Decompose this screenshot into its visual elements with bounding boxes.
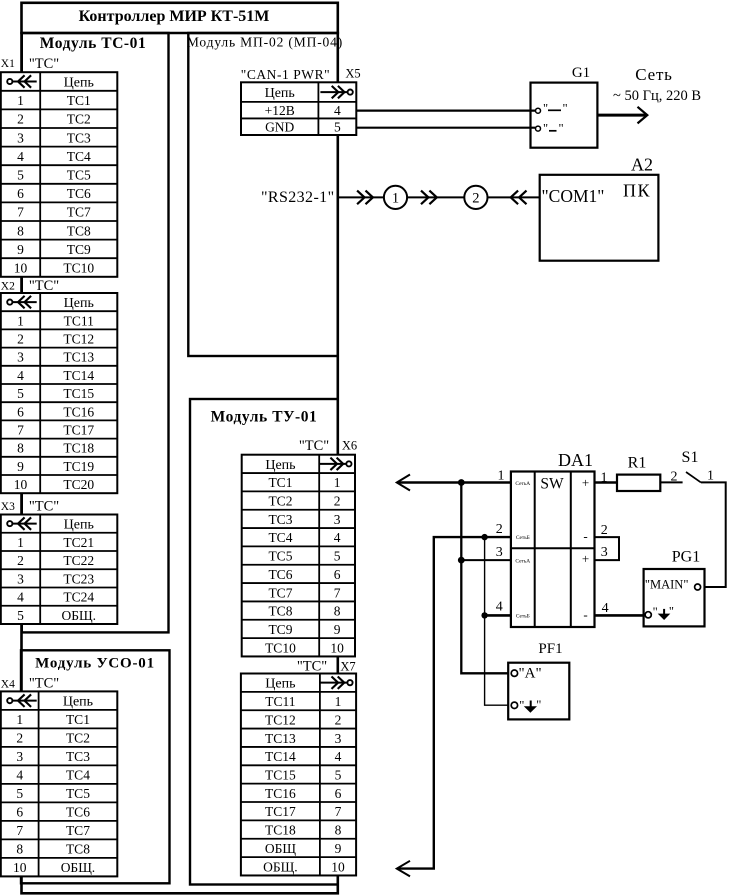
svg-text:4: 4	[334, 103, 341, 118]
svg-text:"COM1": "COM1"	[542, 186, 605, 206]
svg-text:10: 10	[14, 261, 28, 276]
svg-text:ТС11: ТС11	[64, 313, 94, 328]
svg-text:"ТС": "ТС"	[29, 676, 59, 692]
svg-text:"ТС": "ТС"	[29, 499, 59, 515]
svg-text:ТС5: ТС5	[268, 549, 292, 564]
svg-text:3: 3	[17, 350, 24, 365]
svg-text:10: 10	[330, 640, 344, 655]
svg-text:3: 3	[17, 130, 24, 145]
svg-text:ТС18: ТС18	[63, 441, 94, 456]
svg-text:ТС18: ТС18	[265, 823, 296, 838]
svg-text:PF1: PF1	[538, 641, 562, 657]
svg-text:ТС14: ТС14	[265, 749, 296, 764]
svg-text:4: 4	[334, 530, 341, 545]
module ТС-01 box	[22, 33, 169, 632]
svg-text:ТС12: ТС12	[63, 332, 94, 347]
svg-text:"ТС": "ТС"	[297, 659, 327, 675]
svg-text:3: 3	[17, 571, 24, 586]
wire S1 to PG1 MAIN	[701, 482, 726, 587]
svg-text:ТС7: ТС7	[67, 205, 91, 220]
svg-text:"CAN-1 PWR": "CAN-1 PWR"	[241, 67, 330, 82]
svg-text:5: 5	[334, 549, 341, 564]
svg-text:5: 5	[17, 608, 24, 623]
svg-text:4: 4	[602, 601, 609, 616]
svg-text:ПК: ПК	[623, 181, 651, 201]
svg-text:+: +	[582, 551, 589, 566]
svg-text:ТС4: ТС4	[66, 768, 90, 783]
svg-text:"MAIN": "MAIN"	[645, 578, 689, 592]
svg-text:8: 8	[334, 604, 341, 619]
mains output arrow	[598, 107, 648, 124]
svg-text:7: 7	[334, 585, 341, 600]
svg-text:ТС14: ТС14	[63, 368, 94, 383]
connector plug chevrons (RS232-1)	[357, 191, 373, 205]
svg-text:ТС17: ТС17	[63, 423, 94, 438]
svg-text:": "	[653, 605, 658, 619]
connector X1	[1, 72, 118, 277]
wire R1 to S1	[660, 481, 682, 483]
svg-text:10: 10	[14, 477, 28, 492]
label "ТС" X6	[299, 438, 357, 454]
switch S1	[671, 449, 715, 485]
svg-text:6: 6	[17, 404, 24, 419]
svg-text:9: 9	[334, 622, 341, 637]
connector plug chevrons (cable)	[421, 191, 437, 205]
svg-text:4: 4	[16, 768, 23, 783]
label Сеть ~50 Гц, 220 В	[613, 65, 701, 104]
svg-text:4: 4	[17, 590, 24, 605]
svg-text:3: 3	[601, 545, 608, 560]
svg-text:3: 3	[335, 731, 342, 746]
svg-text:2: 2	[334, 494, 341, 509]
svg-text:1: 1	[17, 93, 24, 108]
svg-text:-: -	[583, 607, 587, 622]
wire pin 2 junction to PF1 ground	[485, 537, 512, 705]
DA1 pin number labels	[496, 469, 609, 617]
svg-text:Цепь: Цепь	[64, 296, 94, 311]
connector X7	[241, 674, 356, 876]
svg-text:2: 2	[472, 191, 479, 207]
svg-text:ТС13: ТС13	[265, 731, 296, 746]
svg-text:~ 50 Гц, 220 В: ~ 50 Гц, 220 В	[613, 88, 701, 104]
svg-text:ТС22: ТС22	[63, 553, 94, 568]
svg-text:ТС8: ТС8	[268, 604, 292, 619]
svg-text:ТС6: ТС6	[268, 567, 292, 582]
svg-text:6: 6	[17, 186, 24, 201]
wire junction down to PF1 pin A	[461, 483, 511, 674]
svg-text:Цепь: Цепь	[265, 458, 295, 473]
svg-text:X3: X3	[1, 501, 15, 513]
svg-text:X7: X7	[340, 660, 355, 674]
svg-text:8: 8	[17, 223, 24, 238]
svg-text:6: 6	[16, 805, 23, 820]
svg-text:ТС16: ТС16	[63, 404, 94, 419]
svg-text:ТС16: ТС16	[265, 786, 296, 801]
svg-text:ТС13: ТС13	[63, 350, 94, 365]
svg-text:9: 9	[17, 242, 24, 257]
module ТУ-01 box	[190, 399, 338, 885]
svg-text:СетьБ: СетьБ	[516, 535, 530, 541]
svg-text:G1: G1	[572, 65, 590, 81]
svg-text:"ТС": "ТС"	[299, 438, 329, 454]
svg-text:Модуль МП-02 (МП-04): Модуль МП-02 (МП-04)	[187, 35, 343, 50]
svg-text:ТС7: ТС7	[66, 823, 90, 838]
svg-text:X2: X2	[1, 281, 15, 293]
jumper DA1 pins 2-3	[595, 537, 620, 560]
svg-text:Сеть: Сеть	[635, 65, 672, 84]
svg-text:+: +	[582, 475, 589, 490]
svg-text:PG1: PG1	[672, 549, 700, 566]
svg-text:Цепь: Цепь	[265, 86, 295, 101]
wire DA1 pin 1 to X6 (left arrow)	[397, 475, 511, 491]
svg-text:7: 7	[17, 205, 24, 220]
svg-text:ТС7: ТС7	[268, 585, 292, 600]
cable joint 2	[464, 186, 487, 209]
svg-text:ТС10: ТС10	[265, 640, 296, 655]
svg-text:"ТС": "ТС"	[29, 278, 59, 294]
svg-text:A2: A2	[631, 155, 653, 175]
svg-text:"ТС": "ТС"	[29, 56, 59, 72]
svg-text:1: 1	[334, 475, 341, 490]
svg-text:2: 2	[335, 712, 342, 727]
svg-text:8: 8	[16, 842, 23, 857]
junction pin 3 wire	[458, 557, 465, 564]
svg-text:5: 5	[16, 786, 23, 801]
label X2 "ТС"	[1, 278, 59, 294]
svg-text:8: 8	[17, 441, 24, 456]
connector socket chevrons (COM1)	[511, 191, 527, 205]
svg-text:2: 2	[671, 470, 678, 485]
svg-text:ТС1: ТС1	[67, 93, 91, 108]
svg-text:GND: GND	[265, 120, 294, 135]
svg-text:8: 8	[335, 823, 342, 838]
svg-text:1: 1	[17, 535, 24, 550]
svg-text:ТС6: ТС6	[66, 805, 90, 820]
wire DA1 pin 4 (thick)	[485, 614, 511, 617]
svg-text:Цепь: Цепь	[64, 518, 94, 533]
module УСО-01 box	[21, 650, 170, 883]
svg-text:ТС24: ТС24	[63, 590, 94, 605]
svg-text:ТС20: ТС20	[63, 477, 94, 492]
svg-text:ТС21: ТС21	[63, 535, 94, 550]
wire X5 pin 4 to G1	[356, 109, 535, 111]
svg-text:ОБЩ.: ОБЩ.	[62, 608, 97, 623]
wire DA1 pin 4 to PG1 ground (thick)	[595, 614, 648, 617]
svg-text:ТС10: ТС10	[63, 261, 94, 276]
label X4 "ТС"	[1, 676, 59, 692]
svg-text:ТС8: ТС8	[66, 842, 90, 857]
svg-text:3: 3	[16, 749, 23, 764]
svg-text:ТС15: ТС15	[63, 386, 94, 401]
svg-text:ТС5: ТС5	[67, 168, 91, 183]
outer box: Контроллер МИР КТ-51М	[20, 3, 339, 894]
svg-text:ТС6: ТС6	[67, 186, 91, 201]
svg-text:ТС4: ТС4	[67, 149, 91, 164]
svg-text:ТС11: ТС11	[265, 694, 295, 709]
label "ТС" X7	[297, 659, 356, 675]
svg-text:ТС12: ТС12	[265, 712, 296, 727]
svg-text:ТС3: ТС3	[268, 512, 292, 527]
svg-text:ТС8: ТС8	[67, 223, 91, 238]
svg-text:Модуль УСО-01: Модуль УСО-01	[35, 656, 155, 672]
svg-text:-: -	[583, 529, 587, 544]
svg-text:ТС5: ТС5	[66, 786, 90, 801]
svg-text:10: 10	[331, 859, 345, 874]
svg-text:2: 2	[16, 731, 23, 746]
svg-text:ТС4: ТС4	[268, 530, 292, 545]
svg-text:1: 1	[335, 694, 342, 709]
svg-text:Модуль ТУ-01: Модуль ТУ-01	[211, 409, 318, 426]
svg-text:ТС19: ТС19	[63, 459, 94, 474]
svg-text:9: 9	[17, 459, 24, 474]
svg-text:X6: X6	[342, 439, 357, 453]
svg-text:": "	[543, 102, 548, 116]
svg-text:DA1: DA1	[558, 450, 593, 470]
svg-text:6: 6	[335, 786, 342, 801]
svg-text:ОБЩ.: ОБЩ.	[263, 859, 298, 874]
svg-text:Модуль ТС-01: Модуль ТС-01	[40, 35, 147, 52]
connector X3	[1, 515, 118, 625]
svg-text:ТС9: ТС9	[268, 622, 292, 637]
svg-text:": "	[519, 699, 524, 713]
label X1 "ТС"	[1, 56, 59, 72]
svg-text:1: 1	[392, 191, 399, 207]
svg-text:ТС15: ТС15	[265, 767, 296, 782]
svg-text:5: 5	[17, 168, 24, 183]
block PF1	[508, 641, 569, 719]
junction on pin 2 wire	[481, 534, 487, 540]
svg-text:5: 5	[17, 386, 24, 401]
connector X5	[241, 82, 356, 135]
svg-text:SW: SW	[540, 476, 564, 493]
svg-text:ОБЩ.: ОБЩ.	[61, 860, 96, 875]
svg-text:": "	[669, 605, 674, 619]
svg-text:X5: X5	[345, 67, 360, 81]
wire DA1 pin 3	[461, 559, 511, 561]
svg-text:ТС2: ТС2	[268, 494, 292, 509]
svg-text:Цепь: Цепь	[265, 677, 295, 692]
computer A2 ПК	[540, 155, 659, 261]
svg-text:2: 2	[17, 332, 24, 347]
wire DA1 pin 1 to R1	[595, 481, 618, 483]
label "CAN-1 PWR" X5	[241, 67, 361, 83]
svg-text:+12В: +12В	[265, 103, 295, 118]
resistor R1	[617, 455, 660, 492]
svg-text:1: 1	[707, 469, 714, 484]
cable joint 1	[384, 186, 407, 209]
svg-text:7: 7	[17, 423, 24, 438]
svg-text:ТС1: ТС1	[66, 712, 90, 727]
svg-text:7: 7	[335, 804, 342, 819]
svg-text:"RS232-1": "RS232-1"	[261, 189, 335, 206]
wire DA1 pin 2 to X7 (left arrow)	[397, 537, 511, 876]
svg-text:СетьА: СетьА	[515, 481, 530, 487]
connector X2	[1, 293, 118, 493]
module МП-02 (МП-04) box	[187, 33, 343, 356]
svg-text:X4: X4	[1, 679, 15, 691]
svg-text:": "	[543, 122, 548, 136]
svg-text:X1: X1	[1, 58, 15, 70]
svg-text:": "	[563, 102, 568, 116]
svg-text:2: 2	[496, 522, 503, 537]
svg-text:9: 9	[335, 841, 342, 856]
label X3 "ТС"	[1, 499, 59, 515]
svg-text:Цепь: Цепь	[64, 76, 94, 91]
svg-text:2: 2	[17, 112, 24, 127]
connector X6	[242, 455, 355, 657]
svg-text:4: 4	[17, 149, 24, 164]
svg-text:Цепь: Цепь	[63, 695, 93, 710]
wire "RS232-1"	[261, 189, 540, 206]
svg-text:ТС1: ТС1	[268, 475, 292, 490]
svg-text:4: 4	[335, 749, 342, 764]
svg-text:2: 2	[17, 553, 24, 568]
svg-text:5: 5	[334, 120, 341, 135]
svg-text:2: 2	[601, 523, 608, 538]
block DA1	[511, 450, 595, 627]
svg-text:Контроллер МИР КТ-51М: Контроллер МИР КТ-51М	[79, 8, 270, 25]
svg-text:": "	[536, 698, 541, 712]
svg-text:ТС3: ТС3	[67, 130, 91, 145]
svg-text:ТС9: ТС9	[67, 242, 91, 257]
svg-text:R1: R1	[628, 455, 647, 472]
svg-text:1: 1	[16, 712, 23, 727]
block PG1	[644, 549, 705, 627]
svg-text:ТС3: ТС3	[66, 749, 90, 764]
svg-text:10: 10	[13, 860, 27, 875]
svg-text:СетьБ: СетьБ	[516, 613, 530, 619]
svg-text:ОБЩ: ОБЩ	[265, 841, 297, 856]
junction pin 4 wire	[481, 612, 487, 618]
svg-text:6: 6	[334, 567, 341, 582]
svg-text:5: 5	[335, 767, 342, 782]
svg-text:1: 1	[17, 313, 24, 328]
svg-text:СетьА: СетьА	[515, 558, 530, 564]
svg-text:7: 7	[16, 823, 23, 838]
junction on pin 1 wire	[458, 479, 465, 486]
svg-text:ТС17: ТС17	[265, 804, 296, 819]
power supply unit G1	[531, 65, 598, 148]
svg-text:3: 3	[334, 512, 341, 527]
svg-text:ТС23: ТС23	[63, 571, 94, 586]
svg-text:"A": "A"	[519, 666, 542, 682]
wire X5 pin 5 to G1	[356, 127, 535, 129]
svg-text:S1: S1	[682, 449, 699, 466]
svg-text:4: 4	[496, 600, 503, 615]
svg-text:ТС2: ТС2	[66, 731, 90, 746]
svg-text:ТС2: ТС2	[67, 112, 91, 127]
svg-text:4: 4	[17, 368, 24, 383]
connector X4	[1, 691, 118, 876]
svg-text:3: 3	[496, 545, 503, 560]
svg-text:": "	[559, 122, 564, 136]
